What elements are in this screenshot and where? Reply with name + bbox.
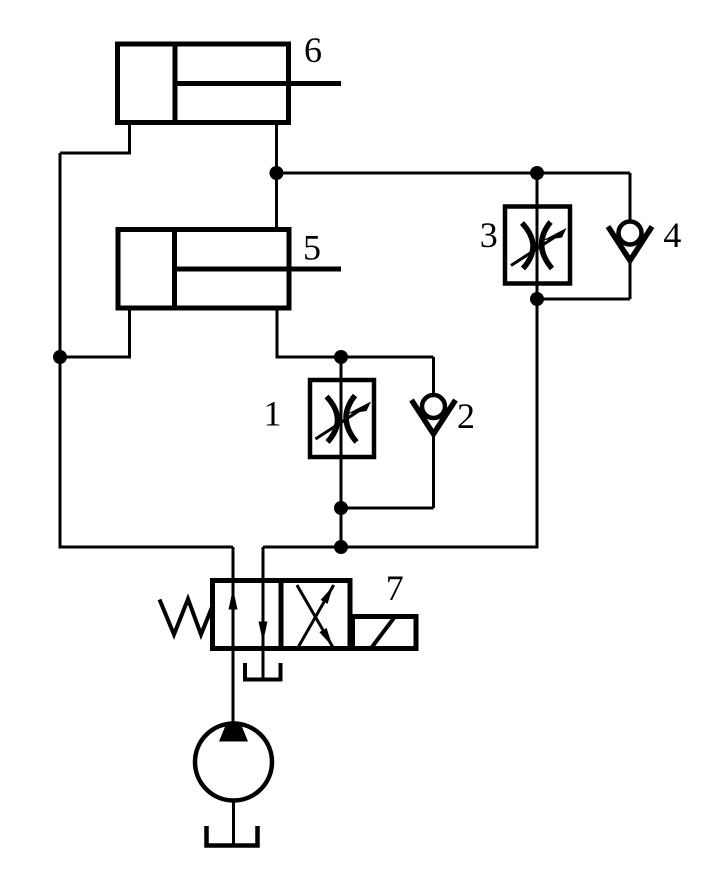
wire cyl5 top port (275, 173, 278, 229)
wire cyl5 right leg (277, 308, 434, 357)
wire cyl5 left leg (60, 308, 130, 357)
wire top distribution line (277, 172, 631, 175)
solenoid (353, 617, 417, 649)
check valve 2 (412, 357, 456, 508)
wire right drop (263, 299, 537, 547)
cylinder 6 (118, 44, 342, 123)
wire through throttle 3 (536, 173, 539, 299)
node junction on return line (334, 540, 348, 554)
down arrow T path (259, 622, 268, 643)
wire check valve 4 bottom link (537, 298, 630, 301)
svg-text:3: 3 (480, 215, 498, 255)
up arrow P path (229, 589, 238, 610)
wire left segment of return line (60, 546, 233, 549)
node junction above throttle 3 (530, 166, 544, 180)
svg-text:1: 1 (264, 394, 282, 434)
throttle valve 1 (310, 380, 374, 457)
wire P line through valve (232, 547, 235, 722)
node junction below throttle 1 (334, 501, 348, 515)
svg-text:5: 5 (303, 228, 321, 268)
tank under valve (245, 663, 281, 680)
cylinder 5 (118, 230, 341, 309)
wire through throttle 1 (340, 357, 343, 549)
svg-text:4: 4 (663, 215, 681, 255)
valve 7 body (213, 581, 351, 649)
wire left rail (59, 153, 62, 549)
spring (160, 599, 213, 635)
node junction above throttle 1 (334, 350, 348, 364)
node junction cyl6/cyl5 (270, 166, 284, 180)
node junction below throttle 3 (530, 292, 544, 306)
node junction left rail (53, 350, 67, 364)
pump (195, 723, 272, 845)
svg-text:6: 6 (304, 30, 322, 70)
wire cyl6 right leg (275, 123, 278, 174)
crossed arrows in right cell (297, 585, 334, 648)
wire check valve 2 bottom link (341, 507, 434, 510)
svg-text:2: 2 (457, 396, 475, 436)
wire cyl6 left leg (60, 123, 130, 154)
tank under pump (207, 826, 258, 846)
check valve 4 (608, 173, 652, 299)
throttle valve 3 (505, 207, 570, 284)
wire T line through valve (262, 547, 265, 679)
svg-text:7: 7 (386, 568, 404, 608)
